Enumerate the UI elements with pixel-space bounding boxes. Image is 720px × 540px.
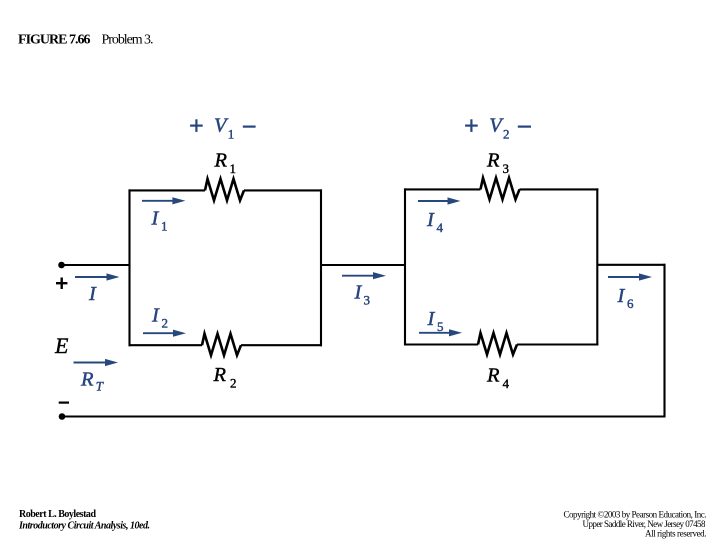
label: current I2 bbox=[151, 305, 168, 331]
label: current I5 bbox=[427, 308, 444, 334]
current arrow I4 bbox=[418, 197, 461, 204]
label: voltage V1 with polarity bbox=[190, 115, 256, 142]
current arrow I1 bbox=[142, 197, 185, 204]
resistor R3 bbox=[481, 178, 520, 200]
svg-text:4: 4 bbox=[503, 376, 510, 391]
svg-text:R: R bbox=[214, 150, 228, 172]
current arrow I2 bbox=[143, 330, 186, 337]
svg-text:All rights reserved.: All rights reserved. bbox=[645, 529, 707, 539]
svg-text:FIGURE 7.66: FIGURE 7.66 bbox=[18, 33, 91, 48]
wire: right block output lead bbox=[597, 264, 665, 266]
node: source negative terminal dot bbox=[59, 413, 66, 420]
current arrow RT bbox=[74, 359, 119, 366]
wire: right block top edge right segment bbox=[520, 188, 599, 190]
svg-text:V: V bbox=[214, 115, 229, 137]
label: resistor R4 value bbox=[486, 365, 510, 392]
current arrow I5 bbox=[419, 329, 462, 336]
wire: right block bottom edge right segment bbox=[517, 343, 598, 345]
resistor R4 bbox=[478, 333, 517, 355]
wire: right block left edge bbox=[404, 188, 406, 345]
wire: middle connecting lead between blocks bbox=[321, 264, 405, 266]
wire: left block bottom edge right segment bbox=[241, 344, 322, 346]
svg-text:1: 1 bbox=[230, 161, 237, 176]
svg-text:Problem 3.: Problem 3. bbox=[102, 33, 154, 48]
svg-text:Robert L. Boylestad: Robert L. Boylestad bbox=[19, 509, 96, 520]
label: current I6 bbox=[617, 285, 635, 311]
svg-text:2: 2 bbox=[503, 127, 510, 142]
figure caption bbox=[18, 33, 154, 48]
label: current I4 bbox=[426, 209, 444, 235]
svg-text:T: T bbox=[96, 379, 104, 394]
label: current I3 bbox=[354, 282, 371, 308]
svg-text:1: 1 bbox=[161, 219, 168, 234]
resistor R1 bbox=[205, 179, 244, 201]
resistor R2 bbox=[202, 334, 241, 356]
svg-text:E: E bbox=[54, 333, 69, 358]
svg-text:2: 2 bbox=[162, 316, 169, 331]
current arrow I bbox=[75, 273, 120, 280]
svg-text:I: I bbox=[426, 209, 435, 231]
svg-text:Introductory Circuit Analysis,: Introductory Circuit Analysis, 10ed. bbox=[18, 521, 150, 532]
svg-text:3: 3 bbox=[503, 161, 510, 176]
svg-text:R: R bbox=[486, 365, 500, 387]
label: total resistance RT bbox=[80, 369, 104, 394]
footer: author credit bbox=[18, 509, 150, 532]
label: resistor R1 value bbox=[214, 150, 237, 177]
svg-text:2: 2 bbox=[230, 376, 237, 391]
svg-text:1: 1 bbox=[228, 127, 235, 142]
svg-text:R: R bbox=[486, 150, 500, 172]
current arrow I3 bbox=[342, 272, 386, 279]
svg-text:I: I bbox=[427, 308, 436, 330]
label: voltage V2 with polarity bbox=[465, 115, 531, 142]
wire: left block top edge left segment bbox=[129, 189, 206, 191]
svg-text:6: 6 bbox=[627, 296, 634, 311]
svg-text:5: 5 bbox=[437, 319, 444, 334]
label: source plus sign bbox=[56, 278, 67, 290]
wire: right block right edge bbox=[596, 188, 598, 345]
wire: left block right edge bbox=[320, 189, 322, 346]
wire: right block top edge left segment bbox=[404, 188, 481, 190]
svg-text:R: R bbox=[80, 369, 94, 391]
svg-text:I: I bbox=[151, 305, 160, 327]
svg-text:I: I bbox=[617, 285, 626, 307]
footer: copyright notice bbox=[564, 510, 707, 539]
svg-text:R: R bbox=[213, 364, 227, 386]
label: resistor R2 value bbox=[213, 364, 237, 391]
wire: left block bottom edge left segment bbox=[129, 344, 203, 346]
svg-text:I: I bbox=[354, 282, 363, 304]
wire: right return vertical segment bbox=[663, 264, 665, 418]
svg-text:I: I bbox=[151, 208, 160, 230]
wire: left block left edge bbox=[128, 189, 130, 346]
label: resistor R3 value bbox=[486, 150, 509, 177]
label: current I1 bbox=[151, 208, 168, 234]
current arrow I6 bbox=[608, 273, 652, 280]
wire: source plus lead to left parallel block bbox=[62, 264, 130, 266]
svg-text:3: 3 bbox=[364, 293, 371, 308]
wire: bottom return lead to source minus bbox=[62, 415, 665, 417]
svg-text:4: 4 bbox=[437, 220, 444, 235]
svg-text:Upper Saddle River, New Jersey: Upper Saddle River, New Jersey 07458 bbox=[583, 519, 707, 529]
wire: right block bottom edge left segment bbox=[404, 343, 478, 345]
svg-text:I: I bbox=[88, 283, 97, 305]
label: source minus sign bbox=[59, 402, 69, 404]
node: source positive terminal dot bbox=[58, 262, 65, 269]
wire: left block top edge right segment bbox=[244, 189, 322, 191]
svg-text:Copyright ©2003 by Pearson Edu: Copyright ©2003 by Pearson Education, In… bbox=[564, 510, 707, 520]
